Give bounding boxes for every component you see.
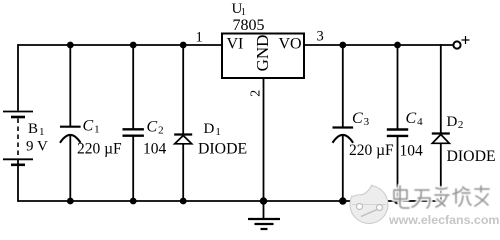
node junction bottom D1 xyxy=(180,198,187,205)
node junction bottom GND xyxy=(260,197,267,204)
svg-text:DIODE: DIODE xyxy=(198,141,247,158)
wire top rail left xyxy=(18,44,222,46)
node junction top C2 xyxy=(130,42,137,49)
node junction top D1 xyxy=(180,42,187,49)
svg-text:1: 1 xyxy=(196,30,203,46)
node junction bottom C1 xyxy=(67,198,74,205)
op-amp U1 regulator box xyxy=(222,1,304,78)
wire top rail right xyxy=(304,44,454,46)
node junction bottom C2 xyxy=(130,198,137,205)
pin 3 label xyxy=(317,29,324,45)
svg-text:GND: GND xyxy=(253,35,272,72)
capacitor C1 xyxy=(60,118,122,158)
wire C3 bottom lead xyxy=(342,135,344,202)
node junction bottom C3 xyxy=(339,197,346,204)
diode D1 xyxy=(174,121,247,158)
wire D2 top lead xyxy=(440,44,442,133)
wire D1 top lead xyxy=(182,44,184,134)
wire D1 bottom lead xyxy=(182,144,184,202)
wire battery bottom lead xyxy=(17,160,19,202)
svg-text:www.elecfans.com: www.elecfans.com xyxy=(388,213,499,227)
ground xyxy=(248,201,280,229)
svg-text:104: 104 xyxy=(143,141,167,158)
wire C1 bottom lead xyxy=(69,135,71,202)
wire GND pin lead xyxy=(263,78,265,202)
output terminal plus xyxy=(453,36,469,49)
wire C2 bottom lead xyxy=(132,136,134,202)
watermark xyxy=(350,185,388,224)
watermark url text xyxy=(388,213,499,227)
watermark chinese text xyxy=(394,186,489,208)
svg-text:2: 2 xyxy=(249,90,264,97)
pin 2 label xyxy=(249,90,264,97)
svg-text:220 µF: 220 µF xyxy=(77,141,122,158)
wire bottom ground rail xyxy=(18,200,445,202)
node junction top C1 xyxy=(67,42,74,49)
node junction top C4 xyxy=(394,42,401,49)
battery B1 xyxy=(3,112,48,165)
pin 1 label xyxy=(196,30,203,46)
svg-text:7805: 7805 xyxy=(233,17,265,34)
svg-text:104: 104 xyxy=(400,143,424,160)
node junction bottom C4 xyxy=(394,198,401,205)
svg-text:9 V: 9 V xyxy=(26,139,48,155)
svg-text:VI: VI xyxy=(227,36,244,53)
node junction top C3 xyxy=(339,42,346,49)
svg-text:3: 3 xyxy=(317,29,324,45)
wire C1 top lead xyxy=(69,44,71,126)
diode D2 xyxy=(432,114,496,165)
svg-text:VO: VO xyxy=(279,36,302,53)
capacitor C4 xyxy=(387,110,423,160)
wire C4 bottom lead xyxy=(397,136,399,202)
wire D2 bottom lead xyxy=(440,143,442,202)
wire C3 top lead xyxy=(342,44,344,127)
capacitor C3 xyxy=(333,110,395,159)
wire C2 top lead xyxy=(132,44,134,129)
wire C4 top lead xyxy=(397,44,399,129)
wire battery top lead xyxy=(17,44,19,110)
capacitor C2 xyxy=(123,119,167,158)
svg-text:DIODE: DIODE xyxy=(447,148,496,165)
svg-text:220 µF: 220 µF xyxy=(349,142,394,159)
